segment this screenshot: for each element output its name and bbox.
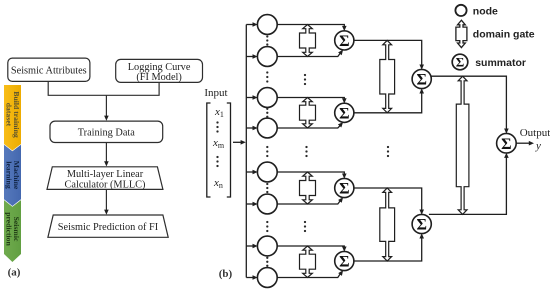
dots between block3 and block4 (node column) (266, 221, 268, 223)
dots between block1 and block2 (gate column) (304, 74, 306, 76)
dots in vector (lower) (216, 156, 218, 158)
wire: arrow into Seismic Prediction (105, 189, 107, 210)
wire: bus to node N2b (246, 127, 253, 129)
svg-text:Machinelearning: Machinelearning (4, 161, 21, 190)
wire: bus to node N3b (246, 203, 253, 205)
legend domain gate symbol (456, 20, 467, 47)
wire: bus to node N2a (246, 97, 253, 99)
domain gate G6 (lower hidden-layer gate) (380, 188, 395, 261)
wire: input arrow into bus (233, 141, 241, 143)
wire: S1 to summator U1 (354, 40, 422, 65)
wire: U1 to final summator (431, 76, 506, 129)
dots in vector (upper) (216, 121, 218, 123)
wire: merge connector (48, 81, 159, 95)
wire: U2 to final summator (429, 157, 507, 214)
flowchart box: Training Data (50, 121, 163, 142)
svg-text:Σ: Σ (339, 105, 349, 122)
node N3b (257, 194, 277, 214)
node N4b (257, 268, 277, 288)
dots between nodes of block 3 (266, 183, 268, 185)
svg-text:Seismic Prediction of FI: Seismic Prediction of FI (58, 222, 159, 233)
svg-text:Output: Output (520, 127, 550, 139)
middle dots (gate column) (305, 146, 307, 148)
wire: bus to node N4b (246, 277, 253, 279)
middle dots (mid-gate column) (387, 146, 389, 148)
summator U1 (412, 69, 431, 88)
wire: node N3b to summator S3 (277, 200, 340, 204)
wire: node N2b to summator S2 (277, 125, 340, 128)
dots between nodes of block 2 (266, 108, 268, 110)
svg-text:Σ: Σ (416, 72, 426, 89)
wire: node N2a to summator S2 (277, 98, 344, 100)
wire: S3 to summator U2 (354, 188, 422, 210)
wire: arrow into MLLC (105, 143, 107, 162)
dots between nodes of block 4 (266, 257, 268, 259)
process arrow: build training dataset (yellow chevron) (4, 85, 21, 151)
summator S3 (335, 178, 354, 197)
wire: node N1b to summator S1 (277, 53, 340, 57)
flowchart trapezoid: Seismic Prediction of FI (48, 215, 168, 237)
svg-text:summator: summator (475, 57, 526, 69)
svg-text:Σ: Σ (501, 136, 511, 153)
process arrow: machine learning (blue chevron) (4, 145, 21, 206)
wire: node N4b to summator S4 (277, 273, 340, 277)
svg-text:Input: Input (204, 87, 227, 99)
legend node symbol (455, 5, 466, 16)
wire: output arrow (516, 142, 529, 144)
wire: node N4a to summator S4 (277, 246, 344, 247)
svg-text:Σ: Σ (339, 181, 349, 198)
svg-text:y: y (535, 140, 541, 152)
wire: node N3a to summator S3 (277, 172, 344, 174)
flowchart trapezoid: Multi-layer Linear Calculator (MLLC) (47, 167, 163, 190)
wire: bus to node N1b (246, 56, 253, 58)
domain gate G2 (300, 98, 316, 129)
middle dots (node column) (266, 146, 268, 148)
flowchart box: Logging Curve (FI Model) (116, 59, 203, 82)
input vector bracket right (227, 103, 231, 197)
process arrow: seismic prediction (green chevron) (4, 200, 21, 262)
input vector bracket left (207, 103, 211, 197)
svg-text:Σ: Σ (339, 254, 349, 271)
domain gate G7 (output-layer gate) (456, 76, 469, 214)
svg-text:(b): (b) (219, 268, 233, 280)
wire: node N1a to summator S1 (277, 25, 344, 27)
wire: S4 to summator U2 (354, 238, 422, 261)
wire: arrow into Training Data (105, 95, 107, 116)
summator S_out (final) (497, 133, 517, 153)
svg-text:(a): (a) (8, 267, 21, 279)
summator S2 (335, 103, 354, 122)
svg-text:Seismicprediction: Seismicprediction (4, 212, 21, 246)
svg-text:Σ: Σ (416, 217, 426, 234)
dots between block1 and block2 (node column) (266, 71, 268, 73)
dots between nodes of block 1 (266, 35, 268, 37)
svg-text:Σ: Σ (456, 55, 465, 70)
domain gate G5 (upper hidden-layer gate) (380, 40, 395, 112)
legend summator symbol (452, 54, 468, 70)
dots between block3 and block4 (gate column) (304, 221, 306, 223)
svg-text:Seismic Attributes: Seismic Attributes (11, 65, 87, 76)
domain gate G3 (300, 172, 316, 204)
node N3a (257, 162, 277, 182)
svg-text:domain gate: domain gate (473, 29, 535, 41)
summator S4 (335, 251, 354, 270)
wire: bus to node N4a (246, 245, 253, 247)
svg-text:Calculator (MLLC): Calculator (MLLC) (65, 179, 146, 190)
node N1a (257, 15, 277, 35)
domain gate G4 (300, 246, 316, 278)
wire: S2 to summator U1 (354, 93, 422, 113)
svg-text:Training Data: Training Data (78, 127, 136, 138)
summator U2 (412, 214, 431, 233)
node N1b (257, 47, 277, 67)
summator S1 (335, 31, 354, 50)
svg-text:node: node (473, 5, 498, 17)
node N2a (257, 88, 277, 108)
node N2b (257, 118, 277, 138)
svg-text:Logging Curve: Logging Curve (128, 62, 191, 73)
wire: bus to node N3a (246, 171, 253, 173)
wire: bus to node N1a (246, 24, 253, 26)
svg-text:(FI Model): (FI Model) (136, 72, 181, 83)
flowchart box: Seismic Attributes (8, 58, 90, 81)
domain gate G1 (300, 25, 316, 57)
svg-text:Σ: Σ (339, 33, 349, 50)
input bus wire (245, 25, 247, 278)
node N4a (257, 236, 277, 256)
